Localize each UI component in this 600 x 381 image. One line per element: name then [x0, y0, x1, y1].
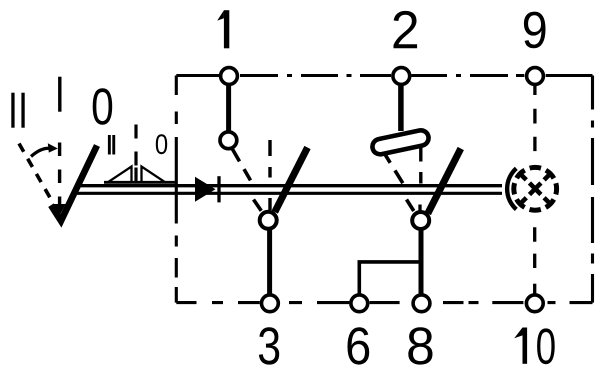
label terminal 10 (custom 1 + 0): [514, 328, 555, 365]
terminal circle 6: [351, 295, 368, 312]
lever position I arrowhead: [54, 204, 66, 216]
lever position II dashed line: [19, 144, 51, 199]
label terminal 3: [259, 327, 279, 364]
shaft bottom line: [76, 192, 503, 195]
crescent dashed blade to junction 8 (lower): [407, 200, 414, 212]
lamp L cross diagonal 1: [519, 172, 552, 205]
label terminal 2: [393, 11, 417, 48]
contact 1 dashed blade upper: [232, 148, 253, 184]
contact 3 dashed vertical: [268, 140, 271, 211]
terminal circle 3: [262, 295, 279, 312]
contact 1 lower circle: [220, 132, 237, 149]
curved motion arrowhead: [48, 143, 58, 152]
terminal 9 dashed line to lamp: [533, 109, 536, 151]
junction circle 8: [412, 212, 429, 229]
lamp L cross diagonal 2: [519, 172, 552, 205]
shaft baseline under detent triangles: [104, 181, 177, 184]
label II (big, lever position): [11, 93, 24, 128]
contact 8 dashed vertical tick below shaft: [418, 205, 421, 212]
lever position I dashed line: [58, 143, 61, 205]
label terminal 6: [347, 327, 369, 364]
terminal circle 9: [527, 68, 544, 85]
label terminal 9: [524, 12, 546, 49]
terminal circle 2: [393, 68, 410, 85]
shaft tick after arrowhead: [217, 176, 220, 202]
junction circle 3: [260, 212, 277, 229]
enclosure dash-dot box: top border: [176, 74, 592, 77]
label 0 (big, lever position): [93, 88, 113, 124]
terminal circle 10: [526, 295, 543, 312]
enclosure left border: [175, 76, 178, 303]
curved motion arrow: [31, 148, 50, 156]
contact 1 dashed blade lower: [254, 200, 262, 211]
label terminal 1 (custom arial-style 1): [217, 10, 229, 48]
label I (big, lever position): [58, 77, 61, 112]
shaft drive arrowhead: [195, 177, 216, 202]
label II (small, detent): [108, 135, 115, 155]
lamp L socket arc: [507, 168, 516, 209]
enclosure right border: [591, 76, 594, 303]
detent triangle left: [107, 167, 132, 183]
terminal 3 bar: [267, 229, 272, 295]
lever (solid, position 0): [51, 146, 97, 221]
detent position I dashed line: [134, 125, 137, 182]
terminal circle 1: [221, 68, 238, 85]
blade at contact 3: [275, 148, 308, 213]
terminal circle 8: [413, 295, 430, 312]
enclosure bottom border: [176, 301, 592, 304]
cam contact (crescent) at terminal 2: [371, 129, 430, 156]
terminal 6 to 8 link: [359, 262, 421, 294]
terminal 2 bar: [398, 84, 404, 131]
terminal 9 stub: [533, 84, 536, 95]
terminal 1 bar: [226, 84, 231, 131]
blade at contact 8: [428, 149, 461, 214]
label terminal 8: [408, 327, 432, 364]
crescent left leg / dashed blade to junction 8 (upper): [382, 149, 404, 184]
lamp L dashed circle: [514, 167, 557, 210]
detent triangle right: [142, 167, 167, 183]
crescent right leg dashed vertical: [419, 147, 422, 184]
lamp to terminal 10 dashed line: [533, 227, 536, 268]
shaft top line: [78, 184, 502, 187]
terminal 10 stub: [533, 284, 536, 296]
label 0 (small, detent): [156, 134, 167, 154]
terminal 8 bar: [419, 229, 424, 295]
